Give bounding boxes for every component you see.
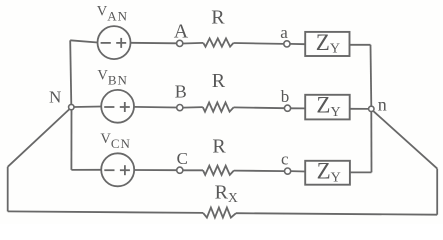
node A terminal bbox=[177, 40, 183, 46]
voltage source U V_AN bbox=[98, 26, 131, 59]
minus sign of V_BN bbox=[104, 106, 114, 108]
resistor R row A bbox=[203, 38, 233, 46]
load box Z_Y row C bbox=[305, 161, 350, 185]
wire Z_Y C to right vertical bbox=[350, 171, 372, 173]
wire bottom right vertical bbox=[436, 169, 438, 215]
svg-text:N: N bbox=[49, 88, 61, 107]
svg-text:C: C bbox=[177, 149, 188, 168]
node N junction bbox=[69, 104, 74, 109]
wire resistor to node b bbox=[234, 106, 285, 109]
wire right vertical (row A down to node n) bbox=[370, 45, 373, 106]
wire bottom line left of R_x bbox=[8, 211, 203, 213]
svg-text:R: R bbox=[212, 70, 226, 92]
plus sign of V_AN bbox=[116, 42, 126, 44]
wire V_BN to node B bbox=[134, 106, 177, 109]
svg-text:a: a bbox=[280, 23, 288, 42]
wire bottom left vertical bbox=[7, 167, 9, 212]
node c terminal bbox=[285, 168, 291, 174]
node n junction bbox=[369, 106, 374, 111]
wire diagonal from node N to bottom left bbox=[8, 109, 70, 167]
wire right vertical (row C up to node n) bbox=[370, 112, 372, 173]
load box Z_Y row B bbox=[305, 95, 350, 120]
node B terminal bbox=[177, 105, 183, 111]
wire diagonal bottom right up to node n bbox=[373, 111, 437, 169]
node C terminal bbox=[177, 167, 183, 173]
plus sign of V_CN bbox=[120, 169, 130, 171]
svg-text:b: b bbox=[281, 87, 290, 106]
wire left bus (node N down to row C corner) bbox=[70, 110, 72, 170]
minus sign of V_CN bbox=[104, 169, 114, 171]
minus sign of V_AN bbox=[101, 42, 111, 44]
resistor R row B bbox=[203, 103, 234, 112]
resistor R_x bbox=[203, 208, 236, 218]
wire Z_Y A to right bend bbox=[350, 44, 371, 46]
wire node A to resistor R (row A) bbox=[183, 42, 204, 45]
wire row A left bbox=[70, 40, 97, 42]
load box Z_Y row A bbox=[305, 32, 349, 56]
wire node B to resistor R (row B) bbox=[183, 106, 203, 109]
wire resistor to node c bbox=[234, 170, 285, 173]
node a terminal bbox=[284, 41, 290, 47]
wire node c to Z_Y box C bbox=[291, 170, 306, 172]
voltage source U V_CN bbox=[101, 153, 134, 186]
svg-text:A: A bbox=[174, 21, 189, 43]
wire resistor to node a bbox=[233, 42, 283, 45]
node b terminal bbox=[284, 105, 290, 111]
wire bottom line right of R_x bbox=[236, 213, 437, 215]
svg-text:n: n bbox=[378, 95, 387, 115]
wire V_AN to node A bbox=[131, 42, 177, 45]
wire V_CN to node C bbox=[134, 169, 177, 171]
wire row C corner to V_CN bbox=[71, 169, 101, 171]
wire node C to resistor R (row C) bbox=[183, 169, 203, 171]
svg-text:R: R bbox=[212, 136, 226, 158]
wire Z_Y B to node n bbox=[350, 108, 369, 110]
wire node b to Z_Y box B bbox=[291, 107, 306, 109]
plus sign of V_BN bbox=[120, 106, 130, 108]
wire node a to Z_Y box A bbox=[290, 43, 305, 45]
svg-text:R: R bbox=[211, 7, 225, 29]
voltage source U V_BN bbox=[101, 90, 134, 123]
svg-text:c: c bbox=[281, 150, 289, 169]
wire node N to V_BN bbox=[74, 106, 101, 109]
svg-text:B: B bbox=[175, 82, 187, 102]
resistor R row C bbox=[203, 166, 234, 175]
wire left bus top (row A corner to node N) bbox=[70, 40, 71, 104]
